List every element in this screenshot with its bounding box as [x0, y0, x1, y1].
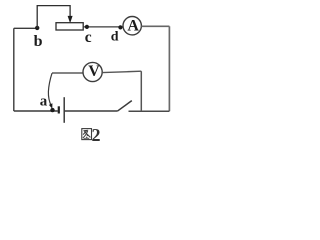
wire ammeter to right rail [141, 25, 169, 27]
node b [34, 26, 43, 50]
voltmeter V [83, 62, 102, 81]
wire right rail [168, 26, 170, 111]
svg-text:d: d [111, 30, 119, 45]
svg-text:2: 2 [92, 125, 101, 145]
node d [111, 25, 123, 44]
battery short plate (negative) [58, 106, 60, 113]
arrowhead into node a [49, 103, 53, 108]
node c [85, 25, 92, 46]
ammeter A [123, 17, 141, 35]
switch S lever [117, 101, 132, 112]
wire voltmeter loop right drop [140, 71, 142, 111]
caption glyph 图 (drawn) [82, 129, 92, 140]
slider arrow of rheostat [68, 16, 73, 23]
wire bottom rail right segment [129, 110, 170, 112]
wire battery to switch [64, 110, 117, 112]
svg-text:A: A [127, 18, 139, 35]
svg-text:c: c [85, 29, 92, 46]
svg-text:a: a [40, 93, 48, 109]
wire voltmeter loop right horizontal [102, 71, 141, 72]
wire bottom rail left segment [14, 110, 58, 112]
svg-text:b: b [34, 33, 43, 50]
wire rheostat to ammeter [83, 26, 123, 28]
wire voltmeter loop: corner down to node a (wavy) [48, 73, 52, 106]
battery long plate (positive) [63, 97, 65, 123]
svg-text:V: V [88, 63, 100, 80]
wire top-left horizontal to node b [14, 27, 37, 29]
wire voltmeter loop left horizontal [52, 72, 83, 74]
resistor R (rheostat box) [56, 23, 83, 30]
wire left rail [13, 28, 15, 111]
node a [40, 93, 55, 112]
wire from b up and over to rheostat slider [37, 6, 70, 28]
